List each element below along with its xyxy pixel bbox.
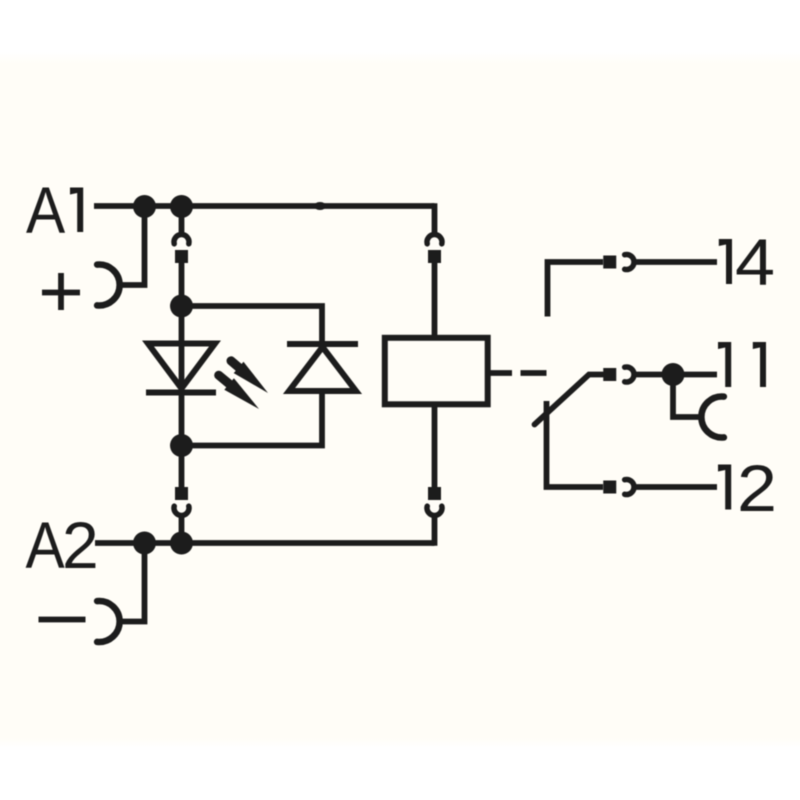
wire diode branch top	[182, 306, 323, 344]
svg-text:2: 2	[62, 508, 99, 582]
wire coil to A2 row	[432, 515, 438, 546]
node junction A2-led	[170, 532, 193, 555]
wire led to triangle	[179, 306, 185, 393]
switch lever	[535, 375, 604, 425]
minus sign	[39, 617, 86, 623]
wire coil bottom	[432, 404, 438, 491]
wire to A2 row	[179, 515, 185, 543]
LED arrow 2	[219, 375, 259, 409]
terminal label 11	[718, 342, 766, 387]
wire contact 14 row	[548, 262, 604, 317]
connector socket led-top	[174, 235, 189, 244]
node junction A1-led	[170, 195, 193, 218]
connector pin 11	[603, 368, 616, 381]
connector pin coil-top	[428, 250, 441, 263]
node junction led-bottom	[170, 434, 193, 457]
terminal label A2	[25, 508, 98, 583]
wire contact 12 riser	[547, 401, 604, 487]
wire A1 dot to led connector	[179, 207, 185, 235]
wire minus riser	[120, 543, 145, 622]
terminal label 14	[719, 226, 775, 300]
wire led bottom	[179, 393, 185, 446]
connector socket 12	[625, 480, 634, 495]
wire A2 row horizontal	[95, 540, 435, 546]
connector socket 11	[625, 367, 634, 382]
wire 14 to label	[632, 259, 717, 265]
svg-text:4: 4	[735, 226, 775, 300]
clamp terminal at plus	[97, 265, 120, 306]
connector pin 14	[603, 256, 616, 269]
connector pin led-bottom	[175, 487, 188, 500]
wire led drop	[179, 259, 185, 306]
wire diode branch bottom	[182, 391, 323, 446]
wire led lower drop	[179, 446, 185, 492]
plus sign	[42, 273, 80, 310]
node junction led-top	[170, 295, 193, 318]
wire 11 to label	[632, 372, 717, 378]
svg-text:A: A	[25, 509, 64, 583]
LED D1 triangle	[148, 344, 215, 389]
connector socket led-bottom	[174, 506, 189, 515]
terminal label 12	[718, 452, 777, 526]
connector socket coil-top	[427, 235, 442, 244]
LED arrow 1	[231, 361, 268, 393]
node junction A1-plus	[133, 195, 156, 218]
wire coil drop from A1 row	[432, 203, 438, 235]
clamp terminal at minus	[97, 601, 120, 642]
node nub on A1 wire	[314, 202, 326, 210]
wire plus riser	[120, 207, 145, 286]
node junction 11	[662, 363, 685, 386]
wire A1 row horizontal	[94, 203, 435, 209]
diode D2 triangle	[289, 347, 356, 391]
svg-text:A: A	[26, 174, 65, 248]
wire 12 to label	[632, 484, 717, 490]
relay coil K1	[385, 338, 488, 405]
connector pin 12	[603, 481, 616, 494]
connector socket coil-bottom	[427, 506, 442, 515]
svg-text:2: 2	[737, 452, 777, 526]
wire coil feed	[432, 259, 438, 338]
node junction A2-minus	[133, 532, 156, 555]
mechanical link dashed	[488, 370, 547, 376]
diode D2 cathode bar	[287, 341, 358, 347]
LED D1 cathode bar	[146, 390, 216, 396]
connector pin coil-bottom	[428, 487, 441, 500]
terminal label A1	[26, 174, 83, 248]
clamp terminal at 11	[701, 397, 724, 438]
connector socket 14	[625, 255, 634, 270]
connector pin led-top	[175, 250, 188, 263]
wire 11 clamp drop	[673, 375, 702, 418]
